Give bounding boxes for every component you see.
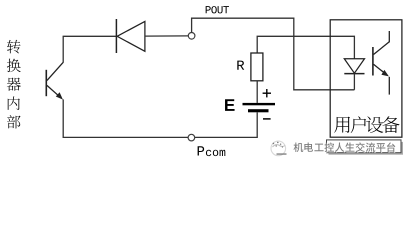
optocoupler LED	[344, 59, 364, 74]
battery E	[243, 103, 276, 112]
label 用户设备	[334, 116, 399, 133]
label 转换器内部 (converter internal)	[7, 40, 21, 129]
wire diode to POUT	[145, 35, 188, 37]
wire bottom rail to emitter	[63, 99, 188, 137]
transistor Q1	[46, 62, 63, 99]
wire POUT top run	[192, 18, 355, 90]
terminal POUT	[188, 33, 195, 40]
label R	[237, 61, 244, 70]
watermark text 机电工控人生交流平台	[294, 142, 397, 152]
label POUT	[206, 6, 211, 13]
resistor R	[251, 53, 263, 81]
terminal Pcom	[188, 134, 195, 141]
wire top-left horizontal	[63, 35, 117, 37]
wire collector to top	[62, 36, 64, 62]
label -	[263, 118, 271, 120]
label Pcom	[198, 146, 205, 155]
label E	[225, 99, 235, 111]
wire R to battery	[256, 81, 258, 103]
optocoupler phototransistor	[373, 31, 389, 95]
diode D1	[116, 19, 144, 53]
wire LED cathode down	[353, 74, 355, 90]
box user equipment	[330, 20, 402, 137]
wire battery to bottom rail	[195, 112, 257, 137]
watermark logo	[271, 141, 286, 156]
wire R to LED anode	[257, 36, 354, 58]
watermark frame	[327, 140, 404, 155]
label +	[263, 89, 271, 97]
